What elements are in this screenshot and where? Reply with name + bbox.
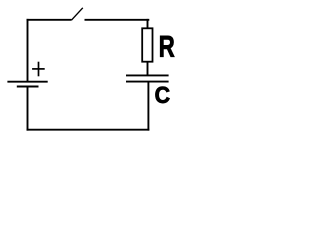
label C bbox=[156, 87, 170, 103]
wire: left vertical lower (battery bottom to bottom-left corner) bbox=[27, 87, 29, 130]
battery B1 negative short plate bbox=[17, 86, 39, 88]
capacitor C top plate bbox=[126, 74, 169, 76]
wire: bottom horizontal bbox=[27, 129, 150, 131]
capacitor C bottom plate bbox=[126, 81, 169, 83]
battery B1 positive long plate bbox=[7, 81, 47, 83]
label + (polarity mark) bbox=[32, 62, 45, 77]
label R bbox=[160, 36, 174, 57]
resistor R (box body) bbox=[142, 28, 152, 61]
wire: switch right contact to top-right corner bbox=[85, 19, 150, 21]
wire: left vertical upper (top-left corner to battery top plate) bbox=[27, 19, 29, 82]
switch S1 lever (open blade) bbox=[71, 8, 82, 20]
wire: capacitor bottom plate down to bottom-right corner bbox=[147, 82, 149, 131]
wire: top-left horizontal (battery top to switch pivot) bbox=[27, 19, 72, 21]
RC charging circuit schematic bbox=[0, 0, 183, 145]
wire: top-right corner stub down to resistor top bbox=[147, 19, 149, 28]
wire: resistor bottom to capacitor top plate bbox=[147, 62, 149, 76]
